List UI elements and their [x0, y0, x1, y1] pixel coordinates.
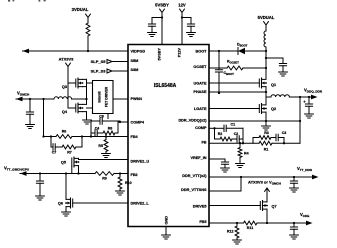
svg-text:VTT_DDR: VTT_DDR [297, 166, 313, 172]
svg-text:12V: 12V [178, 3, 186, 8]
wire [282, 66, 284, 72]
svg-text:R2: R2 [218, 132, 223, 136]
pin FB4 [131, 135, 139, 139]
wire DDR_VDDQ sense line [209, 120, 301, 122]
svg-text:C3: C3 [282, 131, 287, 135]
svg-text:5VSBY: 5VSBY [155, 3, 169, 8]
wire PWM4 line [113, 98, 128, 100]
wire R1 net left bar [253, 138, 259, 144]
pin 5VSBY [158, 48, 162, 61]
wire 12V to IC [181, 13, 183, 45]
wire [190, 26, 192, 32]
ground [262, 126, 271, 130]
svg-text:ATX3V3: ATX3V3 [59, 57, 75, 62]
resistor R7 [62, 145, 76, 154]
wire comp right bar [239, 128, 244, 144]
node 5VSBY supply [155, 3, 169, 13]
wire Q2 drain [265, 97, 267, 105]
pin VIDPGD [131, 50, 146, 54]
wire VTT cap branch [39, 174, 41, 182]
pin DDR_VTTSNS [181, 188, 207, 192]
wire R2 branch [215, 128, 221, 139]
node VDDQ_DDR output [304, 88, 323, 100]
wire Q6 source gnd [65, 207, 67, 212]
wire Q7 drain riser [266, 188, 268, 202]
wire comp4 left bar [91, 121, 100, 137]
pin PHASE [193, 90, 207, 94]
svg-text:Intersil: Intersil [98, 91, 102, 102]
transistor Q6 [58, 198, 73, 208]
pin BOOT [196, 50, 208, 54]
wire [257, 222, 306, 224]
ground [290, 188, 299, 192]
svg-text:PHASE: PHASE [193, 90, 207, 94]
resistor R9 [95, 172, 114, 181]
wire ATX3V3 down [68, 67, 76, 84]
svg-text:Q5: Q5 [61, 161, 66, 165]
ground [187, 33, 196, 37]
svg-text:R8: R8 [108, 127, 113, 131]
svg-text:FB2: FB2 [131, 173, 138, 177]
svg-text:GND: GND [165, 216, 169, 225]
svg-text:Q2: Q2 [271, 107, 276, 111]
pin OCSET [193, 65, 207, 69]
pin PWM4 [131, 97, 143, 101]
wire VTT line [20, 172, 95, 174]
wire DRIVE2_U line [79, 159, 129, 161]
node 3VDUAL supply [72, 7, 91, 18]
svg-text:VGMCH: VGMCH [17, 91, 30, 97]
wire [29, 114, 31, 124]
capacitor C7 [52, 144, 57, 155]
svg-text:OCSET: OCSET [193, 65, 207, 69]
wire COMP line [209, 127, 224, 129]
pin DRIVE2_U [131, 160, 150, 164]
wire [265, 25, 267, 31]
capacitor C bypass [279, 64, 286, 66]
transistor Q5 [61, 157, 79, 167]
wire Q7 source down [266, 209, 268, 224]
wire phase rail [266, 87, 271, 97]
wire Q3 drain to driver [83, 79, 93, 83]
svg-text:R7: R7 [67, 151, 72, 155]
pin FB5 [199, 220, 206, 224]
capacitor C out VDDQ [303, 97, 312, 114]
svg-text:3VDUAL: 3VDUAL [72, 7, 89, 12]
resistor R10 [118, 174, 131, 192]
svg-text:P12V: P12V [178, 48, 182, 58]
wire cap branch [29, 99, 31, 112]
svg-text:VIDPGD: VIDPGD [131, 50, 146, 54]
resistor R_OCSET [227, 60, 243, 70]
wire FB line right [272, 142, 300, 144]
pin DDR_VTT(x2) [182, 174, 207, 178]
capacitor C1 [224, 123, 235, 132]
pin DRIVE5 [193, 205, 207, 209]
ground [148, 33, 157, 37]
wire VGMCH line [16, 98, 54, 100]
wire 12V cap branch [182, 18, 191, 25]
wire [151, 26, 153, 32]
node 12V supply [178, 3, 186, 13]
wire [55, 146, 62, 148]
svg-text:ISL6548A: ISL6548A [154, 83, 177, 89]
node ATX3V3 supply [59, 57, 75, 67]
svg-text:VDDQ_DDR: VDDQ_DDR [304, 88, 323, 94]
pin FB [201, 141, 206, 145]
ground [83, 120, 92, 124]
wire C4 branch [91, 132, 95, 134]
wire BOOT line [209, 50, 238, 52]
svg-text:Q1: Q1 [271, 83, 276, 87]
capacitor C 12V [187, 24, 194, 26]
svg-text:DDR_VTT(x2): DDR_VTT(x2) [182, 174, 207, 178]
resistor R12 [227, 223, 239, 240]
capacitor C4 [95, 127, 100, 137]
svg-text:ATX3V3 or VGMCH: ATX3V3 or VGMCH [248, 180, 281, 186]
pin S5M [131, 59, 139, 63]
wire [87, 36, 89, 52]
wire [97, 132, 103, 134]
resistor R5 [98, 137, 108, 154]
svg-text:R6: R6 [62, 130, 67, 134]
svg-text:CBOOT: CBOOT [224, 71, 235, 76]
node SLP_S5 input [91, 59, 112, 64]
svg-text:FB5: FB5 [199, 220, 206, 224]
resistor R1 [259, 141, 272, 151]
transistor Q1 [259, 78, 276, 88]
wire VDDQ vertical [299, 97, 301, 143]
wire bypass branch [266, 58, 283, 64]
svg-text:DRIVE5: DRIVE5 [193, 205, 207, 209]
svg-text:Q3: Q3 [62, 85, 67, 89]
capacitor C2 [234, 132, 240, 142]
wire [224, 164, 226, 168]
svg-text:FET DRIVER: FET DRIVER [105, 86, 109, 107]
svg-text:S5M: S5M [131, 59, 139, 63]
svg-text:SLP_S3: SLP_S3 [91, 69, 107, 74]
wire LGATE line [209, 108, 259, 110]
svg-text:VTT_GMCH/CPU: VTT_GMCH/CPU [4, 166, 30, 172]
wire FB4 line left [44, 135, 57, 137]
capacitor C 5VSBY [148, 24, 155, 26]
capacitor C3 [276, 131, 286, 141]
pin P12V [178, 48, 182, 58]
svg-text:S3M: S3M [131, 68, 139, 72]
wire Q4 source to gnd [86, 112, 88, 120]
pin COMP4 [131, 121, 145, 125]
wire DRIVE5 line [209, 205, 260, 207]
wire [243, 67, 266, 69]
node VTT_DDR output [297, 166, 319, 179]
wire R8 up to COMP4 [115, 121, 121, 133]
wire FB5 line [209, 222, 244, 224]
IC U1 ISL6548A controller body [128, 45, 209, 227]
ground [26, 125, 35, 129]
svg-text:Q4: Q4 [62, 110, 68, 114]
svg-text:BOOT: BOOT [196, 50, 208, 54]
capacitor C vref [221, 162, 228, 164]
wire GND stub [165, 227, 167, 236]
svg-text:DDR_VDDQ(x2): DDR_VDDQ(x2) [178, 119, 207, 123]
capacitor C VTT out [36, 181, 43, 183]
wire Q2 source gnd [265, 112, 267, 126]
svg-text:VREF_IN: VREF_IN [190, 156, 206, 160]
wire C8 right [102, 120, 120, 122]
svg-text:LGATE: LGATE [194, 107, 207, 111]
capacitor C VGMCH out [26, 112, 33, 114]
wire FB4 line [72, 135, 128, 137]
svg-text:DDR_VTTSNS: DDR_VTTSNS [181, 188, 207, 192]
wire VIDPGD line [23, 50, 129, 52]
wire C7R7 branch down [51, 137, 53, 148]
wire driver gnd stub [107, 114, 109, 119]
inductor L 5VDUAL [264, 31, 266, 47]
wire [278, 138, 284, 144]
wire [112, 61, 128, 63]
ground [36, 196, 45, 200]
svg-text:Q6: Q6 [58, 202, 63, 206]
ground [116, 191, 125, 195]
capacitor C vtt out [290, 177, 297, 188]
svg-text:5VSBY: 5VSBY [158, 48, 162, 61]
wire C7R7 branch up [76, 137, 82, 148]
svg-text:R12: R12 [227, 230, 234, 234]
svg-text:UGATE: UGATE [193, 82, 206, 86]
wire to VDDQ out [289, 96, 311, 98]
pin DRIVE2_L [131, 202, 150, 206]
svg-text:FB: FB [201, 141, 206, 145]
wire Q6 drain riser [65, 174, 67, 200]
node V_GMCH output [16, 91, 30, 102]
wire DRIVE2_L line [73, 202, 128, 204]
node 5VDUAL supply [258, 15, 275, 25]
svg-text:5VDUAL: 5VDUAL [258, 15, 275, 20]
wire [87, 18, 89, 24]
node SLP_S3 input [91, 69, 112, 74]
ground [305, 114, 314, 118]
wire [39, 183, 41, 196]
svg-text:DBOOT: DBOOT [237, 43, 248, 48]
resistor R4 [238, 143, 249, 163]
wire Q4 leads [83, 104, 93, 111]
wire OCSET lead [209, 67, 227, 69]
resistor R11 [244, 221, 258, 230]
node VIDPGD output arrow [23, 49, 30, 54]
pin FB2 [131, 173, 138, 177]
node ATX3V3 or VGMCH supply [248, 180, 281, 192]
wire 5VDUAL rail [265, 47, 267, 79]
node VTT_GMCH output [4, 166, 30, 176]
svg-text:DRIVE2_U: DRIVE2_U [131, 160, 150, 164]
svg-text:ROCSET: ROCSET [227, 60, 239, 65]
ground [233, 240, 242, 244]
svg-text:R9: R9 [102, 177, 107, 181]
pin LGATE [194, 107, 207, 111]
ground [162, 235, 171, 239]
svg-text:COMP: COMP [195, 126, 207, 130]
svg-text:R3: R3 [264, 131, 269, 135]
svg-text:Q7: Q7 [272, 205, 277, 209]
wire VREF lead [209, 159, 225, 162]
transistor Q4 [62, 103, 83, 114]
svg-text:C1: C1 [231, 123, 236, 127]
ground [62, 212, 71, 216]
svg-text:VCKE: VCKE [300, 212, 309, 218]
svg-text:R10: R10 [125, 181, 132, 185]
svg-text:FB4: FB4 [131, 135, 139, 139]
wire [112, 70, 128, 72]
ground [279, 72, 288, 76]
resistor R3 [259, 131, 271, 139]
pin S3M [131, 68, 139, 72]
ground [236, 164, 245, 168]
resistor R pullup 3VDUAL [86, 23, 90, 36]
wire [271, 137, 276, 139]
IC U2 Intersil FET driver box [93, 81, 114, 114]
svg-text:R5: R5 [98, 144, 103, 148]
transistor Q7 [260, 201, 276, 211]
svg-text:DRIVE2_L: DRIVE2_L [131, 202, 150, 206]
ground [290, 235, 299, 239]
pin UGATE [193, 82, 206, 86]
wire [226, 127, 243, 129]
capacitor C8 [99, 115, 104, 125]
ground [102, 154, 111, 158]
svg-text:R11: R11 [247, 226, 253, 230]
wire VTT_DDR line [209, 176, 312, 178]
wire Q5 gate hook [71, 166, 73, 174]
inductor L out [271, 95, 289, 97]
wire VGMCH sense drop [42, 99, 44, 138]
resistor R8 [103, 127, 115, 135]
diode D_BOOT [237, 43, 248, 55]
wire 5VSBY to IC [161, 13, 163, 45]
wire 5VSBY cap branch [152, 18, 162, 25]
wire Q5 source down [77, 166, 79, 175]
svg-text:SLP_S5: SLP_S5 [91, 59, 107, 64]
svg-text:C4: C4 [95, 127, 100, 131]
wire ATX rail down to Q4 gate [68, 83, 76, 108]
wire phase to Q3/Q4 [72, 98, 87, 100]
pin GND [165, 216, 169, 225]
wire [245, 50, 266, 52]
capacitor C_BOOT [215, 50, 234, 94]
wire Q3 source to phase [83, 79, 88, 104]
svg-text:R1: R1 [264, 148, 269, 152]
resistor R2 [218, 132, 232, 141]
svg-text:PWM4: PWM4 [131, 97, 143, 101]
svg-text:+: + [303, 100, 306, 104]
svg-text:C8: C8 [99, 115, 104, 119]
pin VREF_IN [190, 156, 206, 160]
transistor Q2 [259, 104, 276, 114]
wire UGATE line [209, 82, 259, 84]
wire FB2 line [114, 172, 128, 174]
wire VTTSNS line [209, 177, 241, 191]
svg-text:R4: R4 [244, 152, 249, 156]
wire [232, 138, 237, 140]
ground [221, 168, 230, 172]
pin COMP [195, 126, 207, 130]
transistor Q3 [62, 78, 83, 89]
wire Q5 drain up [78, 158, 80, 159]
resistor R6 [56, 130, 72, 139]
svg-text:C2: C2 [234, 132, 239, 136]
wire FB line [209, 142, 259, 144]
pin DDR_VDDQ(x2) [178, 119, 207, 123]
wire PHASE line [209, 91, 267, 93]
svg-text:C7: C7 [52, 151, 57, 155]
capacitor C cke out [290, 223, 297, 235]
svg-text:COMP4: COMP4 [131, 121, 145, 125]
wire COMP4 line [120, 121, 128, 122]
node V_CKE output [300, 212, 313, 225]
inductor L VGMCH [54, 97, 72, 99]
